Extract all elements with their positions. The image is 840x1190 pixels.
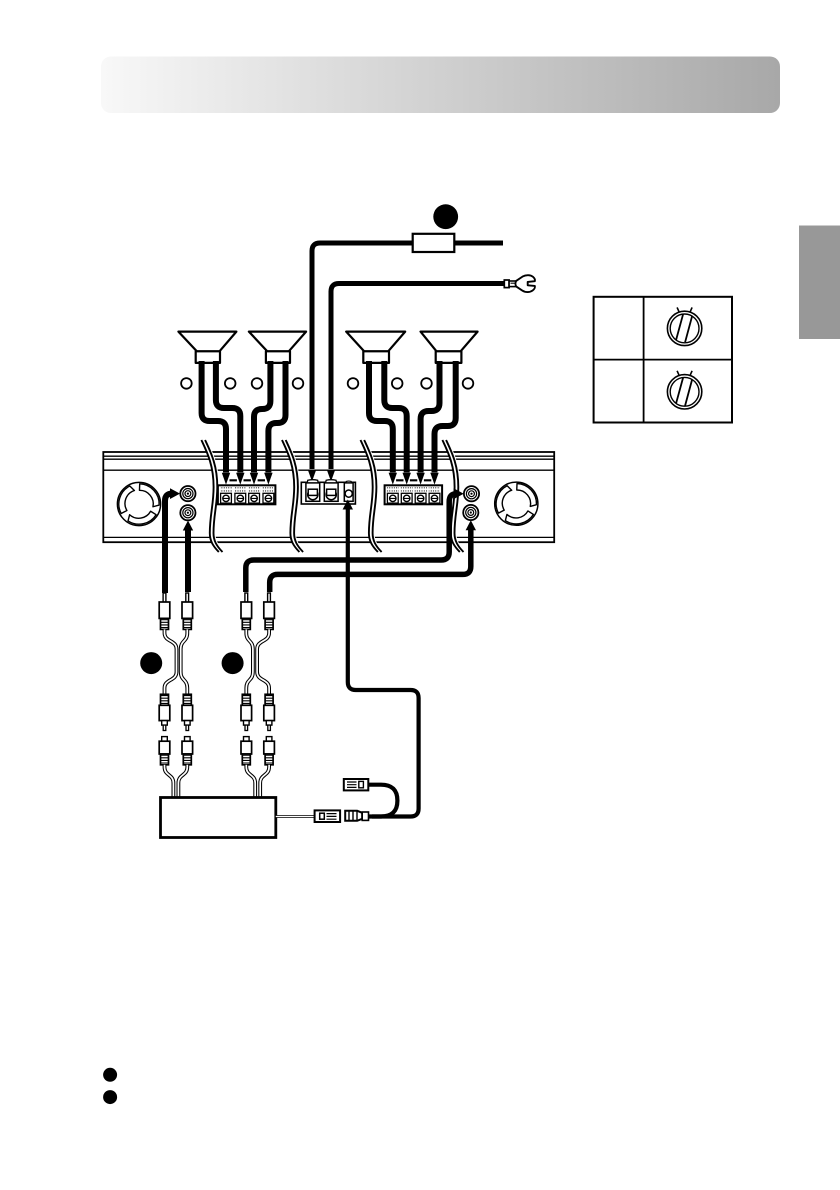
connector male crimped [345, 811, 368, 821]
RCA jack right top [464, 486, 479, 501]
speaker SP2 [249, 332, 306, 363]
header bar [101, 57, 780, 114]
ring terminal [504, 275, 535, 292]
RCA jack left bottom [180, 505, 195, 520]
cable pass curve 4 [442, 440, 463, 552]
speaker SP3 wires [369, 361, 407, 473]
callout marker 2 [140, 652, 162, 674]
bullet 2 [103, 1090, 117, 1104]
RCA lead left-top jack [165, 494, 173, 593]
amplifier panel [103, 452, 554, 542]
bullet 1 [103, 1068, 117, 1082]
head unit box [161, 798, 276, 838]
ground wire with ring terminal [331, 284, 505, 470]
cable pass curve 1 [201, 440, 222, 552]
RCA lead left-bottom jack [185, 528, 191, 592]
knob top [667, 307, 701, 345]
fuse F1 [413, 234, 455, 252]
RCA jack right bottom [463, 505, 478, 520]
fan right [488, 470, 555, 537]
RCA cable chain left [159, 593, 192, 798]
fan left [110, 471, 177, 538]
power terminal block center [301, 480, 355, 504]
speaker SP2 wires [254, 361, 286, 473]
spade connector U wire [368, 785, 397, 817]
speaker terminal block right [385, 480, 443, 504]
RCA lead right-bottom jack [270, 528, 471, 592]
speaker SP3 [346, 332, 405, 363]
spade connector upper [344, 779, 369, 790]
callout marker 3 [222, 652, 244, 674]
head unit lead wire [276, 815, 315, 818]
remote turn-on wire [348, 508, 419, 817]
callout marker 1 [433, 204, 458, 229]
gain knob table [594, 297, 732, 423]
power wire with fuse [312, 243, 503, 469]
RCA jack left top [180, 486, 195, 501]
speaker SP1 [178, 332, 236, 363]
speaker SP4 [421, 332, 478, 363]
speaker SP4 wires [421, 361, 456, 473]
speaker terminal block left [218, 480, 276, 504]
connector female on lead [315, 810, 341, 822]
speaker SP1 wires [202, 361, 241, 473]
speaker mounting holes [181, 378, 473, 389]
cable pass curve 2 [282, 440, 303, 552]
cable pass curve 3 [361, 440, 382, 552]
RCA lead right-top jack [246, 494, 457, 592]
knob bottom [667, 371, 701, 409]
page edge tab [799, 226, 840, 340]
RCA cable chain right [241, 593, 274, 798]
